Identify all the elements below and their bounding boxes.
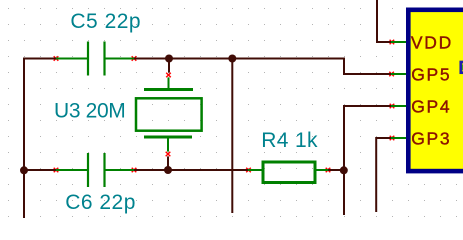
x mark GP5 pin [389, 72, 394, 77]
svg-text:GP4: GP4 [411, 96, 451, 116]
capacitor C5 [56, 42, 134, 76]
svg-text:GP3: GP3 [411, 128, 451, 148]
wire: R4 right to junction [328, 169, 344, 171]
x mark C6 right [132, 168, 137, 173]
crystal U3 [136, 77, 202, 151]
pin GP5 stub [391, 73, 406, 75]
pin VDD stub [391, 41, 406, 43]
wire: mid vertical (top net junction down to bottom) [231, 59, 233, 214]
capacitor C6 [56, 153, 134, 187]
x mark GP4 pin [390, 104, 395, 109]
x mark R4 right [326, 168, 331, 173]
resistor R4 [248, 162, 328, 183]
wire: crystal bottom stub connection [167, 156, 169, 170]
wire: bottom net mid segment (C6 right pin to R4 left pin) [134, 169, 248, 171]
svg-text:R4 1k: R4 1k [261, 129, 318, 152]
x mark R4 left [246, 168, 251, 173]
wire: bottom net left segment [24, 169, 56, 171]
pin GP3 stub [391, 137, 406, 139]
junction: left bottom corner [20, 166, 28, 174]
partial blue component clipped at right edge [461, 62, 463, 73]
wire: top net left segment (corner to C5 left pin) [24, 59, 56, 219]
svg-text:VDD: VDD [411, 32, 453, 52]
wire: GP3 down to bottom edge [376, 138, 391, 212]
x mark C5 left [54, 56, 59, 61]
IC U? body (yellow, clipped at right) [408, 10, 463, 171]
svg-text:GP5: GP5 [411, 64, 451, 84]
wire: VDD drop from top edge [377, 0, 391, 42]
x mark GP3 pin [390, 136, 395, 141]
x mark C6 left [54, 168, 59, 173]
svg-text:U3 20M: U3 20M [54, 100, 125, 123]
wire: right vertical through R4 junction up to GP4 [344, 106, 391, 215]
junction: bottom wire / crystal bottom [164, 166, 172, 174]
x mark C5 right [132, 56, 137, 61]
pin-end x marks (red) [54, 40, 395, 173]
x mark crystal bottom [166, 152, 171, 157]
wire: crystal top stub connection [168, 59, 170, 73]
junction: top wire / crystal top [165, 55, 173, 63]
wire: top net right segment (C5 right pin to GP5 pin) [134, 59, 391, 75]
svg-text:C6 22p: C6 22p [65, 191, 136, 214]
svg-text:C5 22p: C5 22p [70, 10, 141, 33]
x mark crystal top [166, 73, 171, 78]
junction: top wire / mid vertical [228, 55, 236, 63]
x mark VDD pin [390, 40, 395, 45]
junction: R4 right / right vertical [340, 166, 348, 174]
pin GP4 stub [391, 105, 406, 107]
